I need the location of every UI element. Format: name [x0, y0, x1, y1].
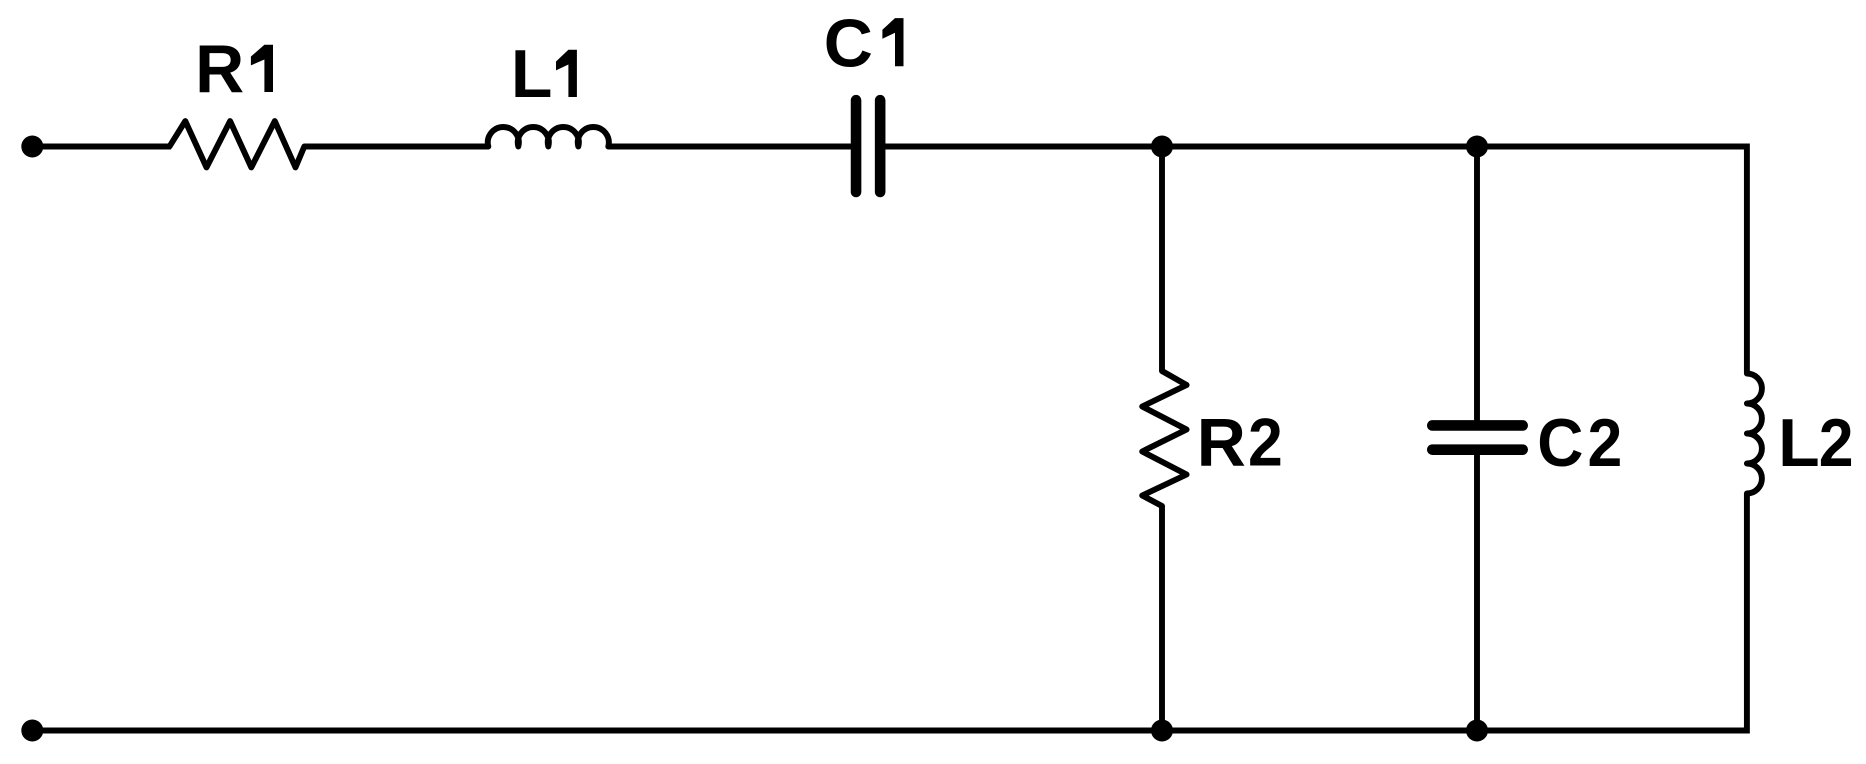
svg-text:2: 2	[1588, 404, 1623, 480]
wire L2 to bottom-right corner to node D	[1477, 494, 1747, 731]
svg-text:C: C	[1537, 404, 1583, 480]
svg-text:2: 2	[1819, 405, 1854, 481]
wire node A to node B	[1162, 144, 1477, 150]
wire terminal to R1	[32, 144, 171, 150]
inductor L1	[488, 127, 609, 147]
label R2	[1197, 404, 1283, 480]
bottom wire node C to node D	[1162, 728, 1477, 734]
node A junction dot	[1151, 136, 1173, 158]
terminal dot top-left	[21, 136, 43, 158]
capacitor C2	[1432, 425, 1522, 449]
wire R1 to L1	[304, 144, 488, 150]
label R1	[195, 31, 273, 107]
wire node B down to C2	[1474, 147, 1480, 426]
svg-text:L: L	[1778, 405, 1820, 481]
resistor R1	[170, 121, 305, 167]
svg-text:R: R	[1197, 405, 1246, 481]
wire R2 to node C	[1159, 506, 1165, 731]
svg-text:2: 2	[1248, 404, 1283, 480]
svg-text:C: C	[824, 5, 873, 81]
svg-text:L: L	[511, 36, 553, 112]
node C junction dot	[1151, 720, 1173, 742]
wire C1 to node A	[880, 144, 1162, 150]
label L2	[1778, 405, 1853, 481]
label C2	[1537, 404, 1622, 480]
wire C2 to node D	[1474, 450, 1480, 731]
inductor L2	[1747, 374, 1762, 494]
bottom wire terminal to node C	[32, 728, 1162, 734]
node B junction dot	[1466, 136, 1488, 158]
label L1	[511, 36, 577, 112]
node D junction dot	[1466, 720, 1488, 742]
svg-text:R: R	[195, 31, 244, 107]
wire node B to top-right corner to L2	[1477, 147, 1747, 374]
wire node A down to R2	[1159, 147, 1165, 372]
capacitor C1	[856, 100, 880, 192]
wire L1 to C1	[608, 144, 856, 150]
resistor R2	[1142, 371, 1186, 506]
label C1	[824, 5, 904, 81]
terminal dot bottom-left	[21, 720, 43, 742]
